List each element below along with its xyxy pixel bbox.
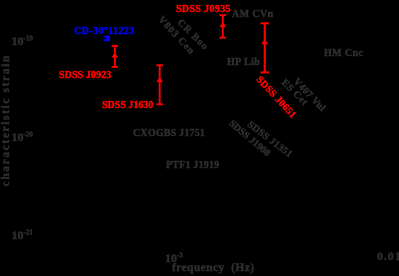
marker SDSS J0923 (red triangle) <box>112 52 119 57</box>
annotation AM CVn <box>232 10 274 20</box>
y tick label 10^-19 <box>12 35 33 47</box>
marker SDSS J0651 (red triangle) <box>261 39 268 44</box>
annotation V407 Vul (rotated) <box>291 77 327 114</box>
error bar SDSS J1630 <box>156 65 163 104</box>
annotation SDSS J1630 (red) <box>102 101 153 111</box>
marker SDSS J1630 (red triangle) <box>156 77 163 82</box>
x tick label 10^-3 <box>165 252 183 264</box>
x-axis label: frequency (Hz) <box>172 263 254 275</box>
y tick label 10^-21 <box>12 229 33 241</box>
y tick label 10^-20 <box>12 131 33 143</box>
annotation CD-30deg11223 (blue) <box>74 27 135 37</box>
error bar SDSS J0923 <box>112 46 119 67</box>
y-axis label: characteristic strain <box>1 54 13 186</box>
error bar SDSS J0935 <box>220 15 227 38</box>
marker CD-30 11223 (blue glyph-3 blob) <box>104 36 111 42</box>
annotation CXOGBS J1751 <box>133 129 205 139</box>
annotation PTF1 J1919 <box>166 161 219 171</box>
annotation V803 Cen (rotated) <box>156 15 196 57</box>
annotation SDSS J0935 (red) <box>176 5 231 15</box>
marker SDSS J0935 (red triangle) <box>219 22 226 27</box>
annotation SDSS J1908 (rotated) <box>227 119 272 159</box>
x tick label 0.01 <box>377 250 399 262</box>
annotation HM Cnc <box>324 49 363 59</box>
annotation SDSS J1351 (rotated) <box>245 120 294 160</box>
error bar SDSS J0651 <box>261 23 269 72</box>
annotation SDSS J0651 (red, rotated) <box>254 75 298 121</box>
annotation ES Cet (rotated) <box>279 78 309 108</box>
annotation HP Lib <box>227 58 260 68</box>
annotation SDSS J0923 (red) <box>59 71 111 81</box>
annotation CR Boo (rotated) <box>175 18 210 53</box>
